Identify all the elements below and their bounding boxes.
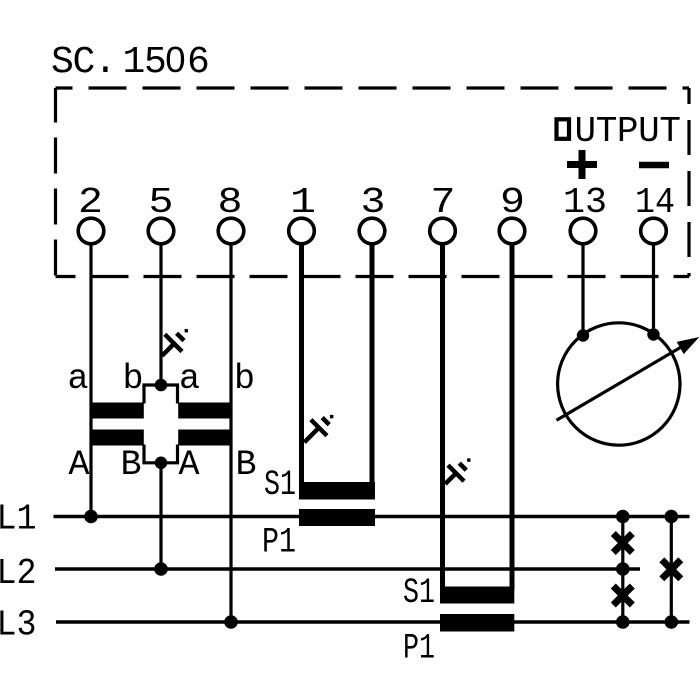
wire terminal 1 to CT1 S1: [299, 245, 304, 486]
svg-text:UTPUT: UTPUT: [575, 111, 681, 152]
node meter terminal 13: [577, 329, 589, 341]
node meter terminal 14: [647, 328, 659, 340]
earth symbol dot (wire 5): [185, 329, 188, 332]
svg-text:15: 15: [123, 41, 166, 84]
wire terminal 14 to meter: [652, 245, 655, 336]
earth symbol on wire 5: [162, 333, 184, 356]
svg-text:b: b: [122, 359, 143, 399]
svg-text:P1: P1: [403, 629, 435, 669]
CT2 primary bar P1: [440, 614, 514, 632]
plus sign (output polarity +): [567, 150, 597, 179]
svg-text:SC.: SC.: [51, 41, 116, 84]
PT T2 primary winding bar (right bottom): [178, 430, 232, 446]
line L2: [55, 567, 640, 570]
line L1: [54, 515, 690, 518]
svg-text:S1: S1: [264, 465, 296, 505]
terminal labels 2 5 8 1 3 7 9 13 14: [78, 182, 675, 223]
earth symbol dot (wire 1): [330, 415, 333, 418]
PT T1 secondary winding bar (left top): [90, 403, 144, 419]
fuse X mark L2-L3: [613, 586, 632, 605]
earth symbol on wire 1: [304, 418, 329, 443]
wire terminal 9 to CT2 S1: [510, 245, 515, 591]
wire terminal 3 to CT1 S1: [370, 245, 375, 486]
svg-text:a: a: [179, 359, 200, 399]
node L1 branch right: [665, 510, 679, 524]
svg-text:B: B: [235, 445, 256, 485]
node bottom jumper junction: [155, 457, 168, 470]
PT T2 secondary winding bar (right top): [178, 403, 232, 419]
wire top jumper b-a: [144, 385, 178, 404]
svg-text:L2: L2: [0, 553, 37, 594]
svg-text:a: a: [67, 359, 88, 399]
CT1 primary bar P1: [299, 509, 375, 526]
PT T1 primary winding bar (left bottom): [90, 430, 144, 446]
line L3: [56, 620, 690, 623]
svg-text:S1: S1: [403, 573, 435, 613]
node L3 branch left: [616, 615, 630, 629]
meter adjustment arrow shaft: [557, 345, 686, 421]
wire fuse branch right (L1 to L3): [670, 517, 673, 623]
wire PT jumper bottom to L2: [159, 463, 162, 569]
CT2 secondary bar S1: [440, 587, 514, 604]
wire terminal 13 to meter: [581, 245, 584, 336]
fuse X mark right branch: [662, 560, 681, 579]
earth symbol on wire 7: [445, 463, 466, 484]
wire fuse branch left (L1 to L3): [621, 517, 624, 623]
node L3 branch right: [665, 615, 679, 629]
wire terminal 7 to CT2 S1: [440, 245, 445, 591]
wire terminal 2 to L1: [89, 245, 92, 518]
svg-text:P1: P1: [262, 523, 296, 563]
earth symbol dot (wire 7): [467, 458, 470, 461]
wire bottom jumper B-A: [144, 445, 178, 463]
svg-text:6: 6: [187, 41, 209, 84]
node L2 branch: [616, 562, 630, 576]
svg-text:0: 0: [165, 39, 185, 80]
node L2/wire5 junction: [154, 562, 168, 576]
meter adjustment arrow head: [677, 337, 700, 354]
wire terminal 8 to L3: [229, 245, 232, 623]
svg-text:L1: L1: [0, 499, 37, 540]
svg-text:A: A: [68, 445, 89, 485]
svg-text:B: B: [120, 445, 141, 485]
svg-text:b: b: [234, 359, 255, 399]
node L3/wire8 junction: [224, 615, 238, 629]
device outline (dashed box): [56, 88, 690, 277]
node L1 branch left: [616, 510, 630, 524]
node L1/wire2 junction: [84, 510, 98, 524]
terminal circles: [78, 218, 666, 244]
meter M1 body: [558, 323, 680, 445]
label OUTPUT: [557, 111, 681, 152]
svg-text:A: A: [178, 445, 199, 485]
minus sign (output polarity -): [639, 162, 669, 169]
wire terminal 5 to PT jumper top: [159, 245, 162, 386]
svg-text:L3: L3: [0, 605, 37, 646]
node top jumper junction: [155, 379, 168, 392]
fuse X mark L1-L2: [613, 534, 632, 553]
CT1 secondary bar S1: [299, 482, 375, 500]
